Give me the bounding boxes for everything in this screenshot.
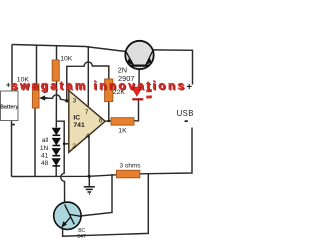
svg-text:10K: 10K <box>60 56 73 63</box>
svg-text:741: 741 <box>73 122 85 129</box>
svg-text:41: 41 <box>41 152 49 159</box>
svg-text:6: 6 <box>99 117 103 124</box>
svg-text:2N: 2N <box>118 65 127 74</box>
svg-text:IC: IC <box>73 114 80 121</box>
svg-text:swagatam innovations: swagatam innovations <box>11 79 187 93</box>
svg-text:1K: 1K <box>118 128 127 135</box>
svg-text:1N: 1N <box>40 145 49 152</box>
svg-text:48: 48 <box>41 160 49 167</box>
svg-text:all: all <box>42 137 49 144</box>
svg-text:7: 7 <box>85 109 89 116</box>
svg-text:Battery: Battery <box>0 104 18 110</box>
svg-text:2: 2 <box>72 143 76 150</box>
svg-text:3 ohms: 3 ohms <box>120 162 141 169</box>
svg-text:547: 547 <box>77 234 86 240</box>
svg-text:3: 3 <box>73 98 77 105</box>
svg-text:BC: BC <box>78 228 85 234</box>
svg-text:USB: USB <box>177 109 194 118</box>
svg-text:4: 4 <box>86 133 90 140</box>
